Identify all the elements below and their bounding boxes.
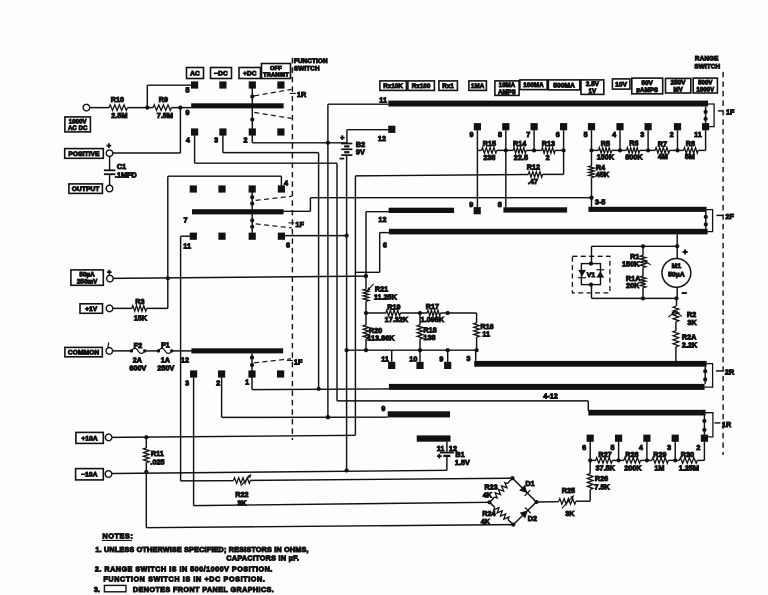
svg-text:+DC: +DC	[243, 70, 257, 77]
svg-text:9: 9	[469, 200, 473, 209]
svg-text:Rx100: Rx100	[412, 83, 431, 90]
svg-text:1F: 1F	[295, 220, 304, 229]
svg-text:7: 7	[526, 130, 530, 139]
svg-text:2F: 2F	[725, 212, 734, 221]
svg-text:POSITIVE: POSITIVE	[68, 151, 100, 158]
svg-text:12: 12	[378, 134, 386, 143]
svg-text:600V: 600V	[129, 363, 146, 372]
svg-text:11: 11	[381, 354, 389, 363]
svg-text:R30: R30	[681, 450, 694, 459]
svg-text:µAMPS: µAMPS	[636, 87, 658, 94]
svg-text:D1: D1	[525, 479, 534, 488]
svg-text:M1: M1	[672, 263, 682, 270]
svg-text:2: 2	[243, 136, 247, 145]
svg-text:6: 6	[582, 443, 586, 452]
svg-text:3.: 3.	[94, 585, 100, 594]
svg-text:10V: 10V	[615, 81, 628, 88]
svg-text:5M: 5M	[685, 152, 695, 161]
svg-text:FUNCTION SWITCH IS IN +DC POSI: FUNCTION SWITCH IS IN +DC POSITION.	[103, 574, 265, 583]
svg-text:2: 2	[696, 443, 700, 452]
svg-text:50µA: 50µA	[668, 271, 685, 278]
svg-text:NOTES:: NOTES:	[102, 531, 133, 540]
svg-text:+10A: +10A	[81, 435, 97, 442]
svg-text:+: +	[683, 246, 688, 256]
svg-text:4: 4	[186, 136, 190, 145]
svg-text:11: 11	[482, 329, 490, 338]
svg-text:4: 4	[612, 130, 616, 139]
svg-text:1F: 1F	[726, 107, 735, 116]
svg-text:1.5V: 1.5V	[455, 458, 470, 467]
svg-text:3K: 3K	[237, 498, 247, 507]
svg-text:6: 6	[286, 241, 290, 250]
svg-text:−DC: −DC	[214, 70, 228, 77]
svg-text:8: 8	[498, 200, 502, 209]
svg-text:10: 10	[409, 354, 417, 363]
svg-text:4: 4	[284, 179, 288, 188]
svg-text:R7: R7	[658, 139, 667, 148]
svg-text:MV: MV	[673, 87, 683, 94]
svg-text:−10A: −10A	[81, 472, 97, 479]
svg-text:2: 2	[670, 130, 674, 139]
svg-text:2.5V: 2.5V	[586, 81, 600, 88]
svg-text:150K: 150K	[622, 259, 640, 268]
svg-text:100MA: 100MA	[523, 82, 544, 89]
svg-text:15K: 15K	[134, 313, 148, 322]
svg-text:1000V: 1000V	[69, 119, 87, 125]
svg-text:+1V: +1V	[85, 306, 98, 313]
svg-text:R13: R13	[542, 139, 555, 148]
svg-text:238: 238	[483, 153, 495, 162]
svg-text:Rx1: Rx1	[442, 83, 454, 90]
svg-text:DENOTES FRONT PANEL GRAPHICS.: DENOTES FRONT PANEL GRAPHICS.	[133, 585, 274, 594]
svg-text:6: 6	[383, 241, 387, 250]
svg-text:F2: F2	[134, 341, 143, 350]
svg-text:R12: R12	[527, 162, 540, 171]
svg-text:11: 11	[694, 130, 702, 139]
svg-text:AC: AC	[190, 70, 200, 77]
svg-text:1R: 1R	[297, 90, 307, 99]
svg-text:50V: 50V	[642, 80, 654, 87]
svg-text:AMPS: AMPS	[498, 90, 516, 96]
svg-text:R15: R15	[483, 139, 496, 148]
svg-text:10MA: 10MA	[499, 83, 516, 89]
svg-text:3-5: 3-5	[595, 197, 606, 206]
svg-text:12: 12	[378, 215, 386, 224]
svg-text:COMMON: COMMON	[68, 350, 100, 357]
svg-text:R3: R3	[135, 297, 144, 306]
svg-text:R25: R25	[562, 486, 575, 495]
svg-text:113.86K: 113.86K	[367, 333, 395, 342]
svg-text:4: 4	[639, 443, 643, 452]
svg-text:45K: 45K	[596, 170, 610, 179]
svg-text:R14: R14	[513, 139, 526, 148]
svg-text:1M: 1M	[654, 463, 664, 472]
svg-text:Rx10K: Rx10K	[383, 83, 403, 90]
svg-text:R6: R6	[629, 139, 638, 148]
svg-text:4-12: 4-12	[543, 392, 558, 401]
svg-text:2: 2	[546, 153, 550, 162]
svg-text:1000V: 1000V	[696, 87, 714, 93]
svg-text:7.5M: 7.5M	[157, 111, 173, 120]
svg-text:4M: 4M	[658, 152, 668, 161]
svg-text:SWITCH: SWITCH	[294, 66, 320, 73]
svg-text:2.5M: 2.5M	[111, 111, 127, 120]
svg-text:8: 8	[498, 130, 502, 139]
svg-text:6: 6	[556, 130, 560, 139]
svg-text:−: −	[340, 154, 345, 163]
svg-text:4K: 4K	[483, 490, 493, 499]
svg-text:7.5K: 7.5K	[594, 482, 610, 491]
svg-text:1F: 1F	[294, 357, 303, 366]
svg-text:1MA: 1MA	[471, 83, 485, 90]
svg-text:1: 1	[245, 378, 249, 387]
svg-text:3: 3	[640, 130, 644, 139]
svg-text:FUNCTION: FUNCTION	[294, 58, 328, 65]
svg-text:R28: R28	[625, 450, 638, 459]
svg-text:D2: D2	[528, 514, 537, 523]
svg-text:3: 3	[667, 443, 671, 452]
svg-text:RANGE: RANGE	[695, 55, 719, 62]
svg-text:17.32K: 17.32K	[385, 315, 409, 324]
svg-text:800K: 800K	[625, 152, 643, 161]
svg-text:3K: 3K	[565, 509, 575, 518]
svg-text:1.095K: 1.095K	[421, 315, 445, 324]
svg-text:3: 3	[466, 354, 470, 363]
svg-text:1R: 1R	[722, 420, 732, 429]
svg-text:200K: 200K	[624, 463, 642, 472]
svg-text:+: +	[107, 141, 112, 150]
svg-text:3: 3	[214, 136, 218, 145]
svg-text:7: 7	[183, 216, 187, 225]
svg-text:12: 12	[181, 356, 189, 365]
svg-text:9V: 9V	[356, 147, 365, 156]
svg-text:R29: R29	[653, 450, 666, 459]
svg-text:2.2K: 2.2K	[682, 340, 698, 349]
svg-text:AC DC: AC DC	[68, 126, 88, 132]
svg-text:4K: 4K	[481, 517, 491, 526]
svg-text:R5: R5	[601, 139, 610, 148]
svg-text:OUTPUT: OUTPUT	[72, 186, 100, 193]
svg-text:50µA: 50µA	[79, 272, 95, 279]
svg-text:500V: 500V	[698, 81, 712, 87]
svg-text:2R: 2R	[725, 368, 735, 377]
svg-text:V1: V1	[587, 272, 596, 279]
svg-text:9: 9	[470, 130, 474, 139]
svg-text:+: +	[107, 268, 112, 277]
svg-text:11.25K: 11.25K	[374, 292, 398, 301]
svg-text:37.5K: 37.5K	[595, 463, 615, 472]
svg-text:2: 2	[216, 379, 220, 388]
svg-text:3K: 3K	[687, 318, 697, 327]
svg-text:.1MFD: .1MFD	[115, 171, 137, 180]
svg-text:150K: 150K	[597, 153, 615, 162]
svg-text:OFF: OFF	[270, 66, 282, 72]
svg-text:−: −	[682, 288, 687, 298]
svg-text:.47: .47	[528, 177, 538, 186]
svg-text:9: 9	[381, 404, 385, 413]
svg-text:SWITCH: SWITCH	[694, 63, 720, 70]
svg-text:TRANSIT: TRANSIT	[263, 73, 289, 79]
svg-text:250V: 250V	[671, 80, 687, 87]
svg-text:500MA: 500MA	[553, 82, 575, 89]
svg-text:2. RANGE SWITCH IS IN 500/1000: 2. RANGE SWITCH IS IN 500/1000V POSITION…	[95, 564, 273, 573]
svg-text:9: 9	[185, 108, 189, 117]
svg-text:1V: 1V	[589, 88, 598, 95]
svg-text:138: 138	[423, 333, 435, 342]
svg-text:R10: R10	[111, 95, 124, 104]
svg-text:+: +	[437, 451, 442, 460]
svg-text:F1: F1	[161, 340, 170, 349]
svg-text:1.25M: 1.25M	[679, 463, 699, 472]
svg-text:R17: R17	[426, 302, 439, 311]
svg-text:5: 5	[584, 130, 588, 139]
svg-text:CAPACITORS IN µF.: CAPACITORS IN µF.	[226, 553, 299, 562]
svg-text:3: 3	[185, 379, 189, 388]
svg-text:11: 11	[183, 242, 191, 251]
svg-text:22.5: 22.5	[514, 153, 528, 162]
svg-text:+: +	[340, 133, 345, 142]
svg-text:R9: R9	[159, 95, 168, 104]
svg-text:250V: 250V	[157, 363, 174, 372]
svg-text:11: 11	[379, 96, 387, 105]
svg-text:.025: .025	[150, 457, 164, 466]
svg-text:20K: 20K	[626, 281, 640, 290]
svg-text:250mV: 250mV	[77, 279, 98, 286]
svg-text:R19: R19	[387, 302, 400, 311]
svg-text:R27: R27	[598, 450, 611, 459]
svg-text:5: 5	[185, 86, 189, 95]
svg-text:9: 9	[439, 354, 443, 363]
svg-text:R8: R8	[686, 139, 695, 148]
